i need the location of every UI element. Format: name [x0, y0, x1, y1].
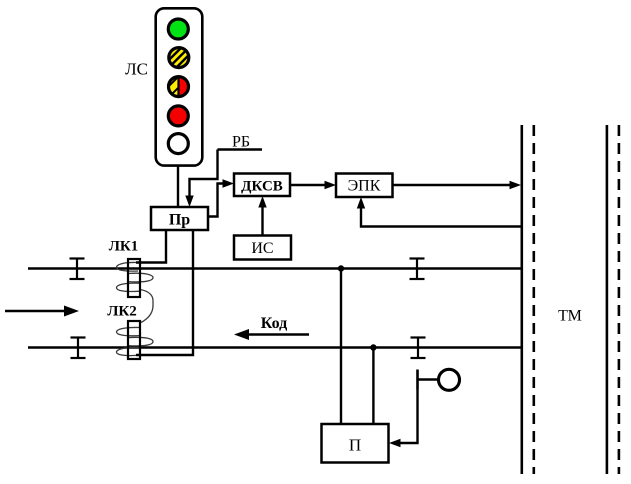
ТМ brake pipe left wall solid: [520, 125, 523, 474]
arrow into П right: [389, 439, 401, 447]
box ДКСВ: [234, 174, 290, 197]
coil ЛК2 tap wire to Пр: [136, 230, 193, 355]
arrow into ДКСВ bottom: [258, 196, 266, 208]
junction node on top rail: [338, 265, 344, 271]
coil ЛК1 winding: [117, 262, 154, 322]
wire ЭПК to ТМ: [393, 184, 516, 186]
bottom rail: [28, 346, 522, 348]
box П: [322, 424, 389, 463]
wire top rail to П: [340, 269, 342, 425]
code arrow: [245, 333, 309, 335]
light white (bottom): [168, 134, 188, 154]
arrow into ЭПК left: [325, 181, 337, 189]
ТМ brake pipe left wall dashed: [532, 125, 535, 474]
РБ terminal line: [218, 148, 263, 150]
svg-text:Код: Код: [261, 315, 287, 332]
box Пр: [151, 207, 208, 230]
wire ИС to ДКСВ: [261, 202, 263, 236]
wire РБ to Пр: [190, 150, 218, 202]
coil ЛК1 tap wire to Пр: [136, 230, 166, 263]
feedback wire ТМ to ЭПК: [361, 203, 522, 227]
wire ДКСВ to ЭПК: [290, 184, 330, 186]
key handle symbol: [418, 369, 460, 390]
light yellow/red half: [166, 75, 190, 99]
wire Пр to ДКСВ: [208, 184, 228, 217]
svg-text:ЛК1: ЛК1: [109, 239, 139, 255]
top rail: [28, 267, 522, 269]
light green (top): [168, 19, 188, 39]
svg-text:ЭПК: ЭПК: [348, 178, 381, 195]
arrow into ДКСВ left: [223, 179, 235, 187]
svg-text:ДКСВ: ДКСВ: [241, 179, 283, 195]
insulator bottom-right: [411, 338, 426, 359]
box ИС: [234, 236, 291, 260]
signal mast wire to Пр: [177, 165, 179, 207]
ТМ brake pipe right wall dashed: [618, 125, 621, 474]
arrow into ТМ line: [510, 181, 522, 189]
svg-text:РБ: РБ: [232, 134, 250, 151]
ТМ brake pipe right wall solid: [606, 125, 609, 474]
insulator bottom-left: [71, 338, 86, 359]
insulator top-right: [410, 259, 425, 280]
arrow into ЭПК bottom: [357, 197, 365, 209]
svg-text:ЛК2: ЛК2: [107, 304, 137, 320]
svg-text:ТМ: ТМ: [558, 308, 582, 325]
svg-text:П: П: [349, 436, 361, 455]
insulator top-left: [70, 259, 85, 280]
svg-text:ЛС: ЛС: [125, 60, 148, 79]
box ЭПК: [336, 174, 393, 198]
coil ЛК1 core: [128, 259, 140, 297]
arrow into Пр top: [185, 196, 193, 208]
wire key to П: [395, 390, 418, 444]
svg-text:Пр: Пр: [169, 212, 190, 229]
coil ЛК2 core: [128, 321, 140, 359]
light yellow hatched: [167, 46, 191, 70]
coil ЛК2 winding: [117, 327, 154, 355]
svg-text:ИС: ИС: [251, 240, 273, 257]
locomotive signal head ЛС housing: [156, 8, 203, 165]
light red: [168, 106, 188, 126]
train direction arrow: [5, 310, 68, 312]
wire bottom rail to П: [372, 348, 374, 425]
junction node on bottom rail: [370, 344, 376, 350]
